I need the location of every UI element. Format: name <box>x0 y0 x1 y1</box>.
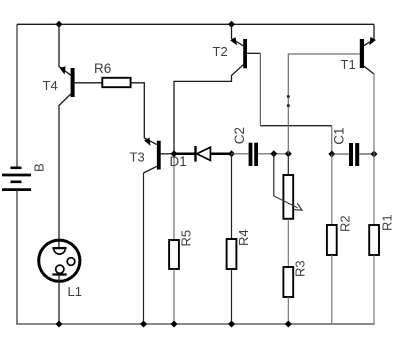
svg-text:R3: R3 <box>293 260 308 277</box>
resistor R5 <box>169 240 179 269</box>
potentiometer wiper arrow <box>274 196 304 213</box>
svg-text:C2: C2 <box>232 127 247 144</box>
svg-text:R5: R5 <box>179 230 194 247</box>
wire cross link <box>260 125 331 127</box>
wire T2 base path to C1 node <box>259 53 261 125</box>
wire left rail lower <box>16 190 18 325</box>
resistor R6 <box>102 78 130 87</box>
wire R1 lower <box>373 255 375 324</box>
wire down to C1 node <box>331 126 333 154</box>
node bottom rail R5 <box>171 321 178 328</box>
wire left rail upper <box>16 24 18 167</box>
node pot top <box>285 150 292 157</box>
svg-text:R6: R6 <box>94 61 111 76</box>
svg-text:R2: R2 <box>338 215 353 232</box>
wire lamp to bottom rail <box>58 275 60 325</box>
wire R3 lower <box>287 297 289 324</box>
wire R6 to T3 <box>131 83 157 145</box>
potentiometer body <box>283 175 293 219</box>
transistor T2 <box>230 37 260 82</box>
wire top rail right corner <box>373 24 375 39</box>
capacitor C2 <box>249 143 258 166</box>
svg-text:B: B <box>31 163 46 172</box>
wire R2 lower <box>331 255 333 324</box>
resistor R4 <box>227 239 237 269</box>
svg-text:T3: T3 <box>130 150 145 165</box>
transistor T3 <box>144 138 175 173</box>
node bottom rail R4 <box>228 321 235 328</box>
wire D1 anode thick <box>174 153 195 156</box>
node bottom rail R3 <box>285 321 292 328</box>
svg-text:R1: R1 <box>380 214 395 231</box>
transistor T4 <box>59 66 102 105</box>
wire T4 emitter drop <box>59 24 71 75</box>
svg-text:C1: C1 <box>332 127 347 144</box>
wire C2 left <box>232 153 249 155</box>
wire T3 collector to bottom rail <box>143 173 145 324</box>
node C1 right / R1 <box>371 151 378 158</box>
wire D1 cathode thick <box>210 153 231 156</box>
resistor R2 <box>327 225 337 255</box>
wire C1 left <box>332 153 349 155</box>
svg-text:T2: T2 <box>213 44 228 59</box>
wire T4 collector to lamp <box>58 105 60 248</box>
svg-text:D1: D1 <box>170 154 187 169</box>
wire R5 lower <box>173 269 175 324</box>
wire top rail <box>17 23 374 25</box>
transistor T1 <box>360 37 376 74</box>
wire C2 right <box>258 153 288 155</box>
wire T1 collector / R1 upper <box>373 74 375 226</box>
lamp L1 <box>39 240 80 281</box>
diode D1 <box>196 146 211 162</box>
wire pot to R3 <box>287 219 289 267</box>
node bottom rail T3 <box>140 321 147 328</box>
battery B <box>2 168 31 190</box>
resistor R3 <box>283 267 293 297</box>
node top rail / T4 emitter <box>56 21 63 28</box>
wire wiper drop <box>273 154 275 196</box>
node bottom rail lamp <box>56 321 63 328</box>
capacitor C1 <box>349 143 359 166</box>
wire C1 right <box>359 153 374 155</box>
wire R2 upper <box>331 154 333 225</box>
wire R4 lower <box>231 269 233 324</box>
node D1 left <box>171 150 178 157</box>
resistor R1 <box>369 225 379 255</box>
svg-text:L1: L1 <box>68 284 82 299</box>
node wiper drop <box>270 150 277 157</box>
wire bottom rail <box>16 323 374 325</box>
svg-text:T1: T1 <box>341 57 356 72</box>
tick marks on T1 base drop <box>287 95 290 97</box>
wire R4 upper <box>231 154 233 239</box>
node C1 left / R2 <box>328 151 335 158</box>
wire T2 emitter drop <box>232 24 244 46</box>
node top rail / T2 emitter <box>228 21 235 28</box>
wire R5 upper <box>173 154 175 240</box>
svg-text:R4: R4 <box>236 229 251 246</box>
wire T2 collector to D1 node <box>174 81 232 153</box>
svg-text:T4: T4 <box>43 78 58 93</box>
wire pot top <box>287 154 289 175</box>
node D1 right / R4 / C2 <box>228 150 235 157</box>
wire T1 base <box>288 54 360 154</box>
